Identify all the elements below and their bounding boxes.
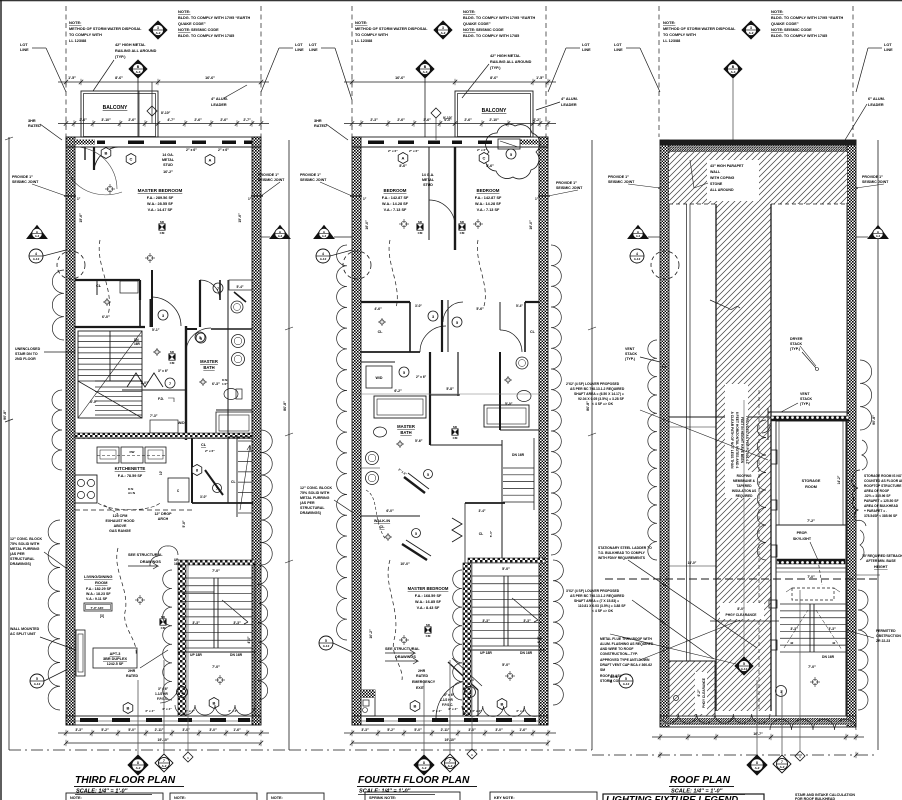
plan B landing wall: [468, 649, 545, 651]
plan A hex B: [101, 148, 111, 159]
svg-text:LINE: LINE: [614, 48, 623, 52]
plan B cloud around stair: [453, 570, 462, 700]
svg-text:AREA OF ROOF: AREA OF ROOF: [864, 489, 889, 493]
plan B emergency door arc: [436, 680, 474, 718]
svg-text:10′-0″: 10′-0″: [400, 562, 410, 566]
svg-text:2′X2′ (4 SF) LOUVER PROPOSED: 2′X2′ (4 SF) LOUVER PROPOSED: [566, 382, 620, 386]
svg-text:KITCHENETTE: KITCHENETTE: [115, 466, 146, 471]
svg-text:RAILING ALL AROUND: RAILING ALL AROUND: [490, 60, 532, 64]
svg-text:2″ x 6″: 2″ x 6″: [388, 149, 398, 153]
plan B shaft bottom left: [361, 690, 375, 716]
plan A bath walls: [185, 326, 187, 440]
bottom note box 5: [490, 792, 597, 800]
plan B dashed curves: [389, 240, 397, 308]
plan C 16ft dim: [669, 565, 716, 567]
overall height dimension line left of third floor plan: [8, 137, 10, 750]
svg-text:7: 7: [216, 487, 218, 491]
svg-text:A-3: A-3: [636, 234, 641, 238]
svg-text:A-2: A-2: [749, 31, 754, 35]
leader from louver note to shaft: [640, 410, 768, 460]
svg-text:3′-0″: 3′-0″: [200, 495, 207, 499]
svg-text:3: 3: [432, 315, 434, 319]
svg-text:1: 1: [181, 691, 183, 695]
svg-text:LINE: LINE: [20, 48, 29, 52]
svg-text:PROVIDE 1″: PROVIDE 1″: [608, 175, 629, 179]
svg-text:5′-8″: 5′-8″: [182, 520, 186, 527]
svg-text:LINE: LINE: [884, 48, 893, 52]
plan C right wall (hatched): [847, 140, 856, 727]
plan A kitchen counters: [97, 447, 119, 463]
svg-text:B: B: [414, 704, 417, 709]
plan A bath sinks: [232, 335, 245, 348]
bottom note box 1: [66, 793, 163, 800]
svg-text:PROVIDE 1″: PROVIDE 1″: [258, 173, 279, 177]
plan A mid partitions: [150, 299, 152, 327]
plan A top dimension line 1: [58, 81, 269, 83]
svg-text:3: 3: [162, 314, 164, 318]
plan C bottom marker diamond 7/A-2: [773, 755, 791, 773]
plan B hex A: [398, 153, 408, 164]
svg-text:3′-3″: 3′-3″: [361, 728, 369, 732]
svg-text:RATED: RATED: [314, 124, 327, 128]
svg-text:W/D: W/D: [376, 376, 383, 380]
svg-text:SEISMIC JOINT: SEISMIC JOINT: [608, 180, 635, 184]
svg-text:3′-3″: 3′-3″: [482, 619, 490, 623]
sheet border top edge: [0, 0, 902, 2]
svg-text:6′-3″: 6′-3″: [212, 382, 220, 386]
svg-text:2′-2″: 2′-2″: [533, 118, 541, 122]
plan A bottom small diamond: [183, 752, 193, 762]
svg-text:NOTE:: NOTE:: [463, 27, 475, 32]
plan B fixtures bedroom1: [401, 221, 407, 227]
svg-text:4″ x 4″: 4″ x 4″: [448, 707, 458, 711]
svg-text:QUAKE CODE”: QUAKE CODE”: [178, 22, 206, 26]
svg-text:DRAWINGS): DRAWINGS): [300, 511, 322, 515]
svg-text:BEDROOM: BEDROOM: [384, 188, 407, 193]
svg-text:PROVIDED AS PER FC 504.4.1: PROVIDED AS PER FC 504.4.1: [745, 416, 749, 464]
svg-text:F.A.: 182.29 SF: F.A.: 182.29 SF: [86, 587, 112, 591]
svg-text:3: 3: [750, 26, 752, 30]
svg-text:PROP.: PROP.: [797, 531, 808, 535]
svg-text:3′-0″: 3′-0″: [415, 304, 422, 308]
svg-text:WALL: WALL: [710, 170, 721, 174]
svg-text:[3]: [3]: [100, 614, 104, 618]
svg-text:42″ HIGH METAL: 42″ HIGH METAL: [115, 43, 146, 47]
plan C skylight dashed rect: [792, 588, 834, 600]
svg-text:2′-11″: 2′-11″: [155, 728, 164, 732]
plan A circle marker 7: [213, 283, 223, 293]
plan C parapet note box: [707, 160, 759, 201]
plan B sd lower: [425, 627, 431, 633]
dimension line right of roof plan: [877, 140, 879, 750]
lot line (dashed): [852, 6, 854, 137]
svg-text:+ PARAPET = .: + PARAPET = .: [864, 509, 887, 513]
svg-text:PROVIDE 1″: PROVIDE 1″: [862, 175, 883, 179]
svg-text:4″ ALUM.: 4″ ALUM.: [561, 97, 578, 101]
svg-text:5: 5: [510, 153, 512, 157]
plan C storage lower dotted band: [777, 559, 845, 564]
plan A cloud right stair: [258, 565, 268, 700]
svg-text:A-12: A-12: [320, 257, 327, 261]
triangle marker left of plan C: [628, 226, 648, 239]
svg-text:METHOD OF STORM WATER DISPOSAL: METHOD OF STORM WATER DISPOSAL: [69, 27, 142, 31]
plan B angled exit walls: [448, 662, 478, 690]
plan A kitchen right closet: [191, 438, 193, 503]
plan B stair shaft walls: [463, 563, 471, 716]
plan C top parapet wall: [660, 140, 856, 145]
svg-text:(AS PER: (AS PER: [300, 501, 315, 505]
svg-text:METAL FURRING: METAL FURRING: [300, 496, 330, 500]
svg-text:BATH: BATH: [400, 430, 411, 435]
dimension line between third and fourth floor plans: [288, 140, 290, 750]
svg-text:4′-7″: 4′-7″: [167, 118, 175, 122]
plan A hex B bottom: [123, 703, 133, 714]
bottom note box 4: [365, 792, 460, 800]
svg-text:4′-6″: 4′-6″: [374, 307, 382, 311]
svg-text:METAL FURRING: METAL FURRING: [10, 547, 40, 551]
svg-text:43″ HIGH PARAPET: 43″ HIGH PARAPET: [710, 164, 744, 168]
svg-text:LL 123/88: LL 123/88: [663, 39, 680, 43]
svg-text:4″ x 4″: 4″ x 4″: [145, 709, 155, 713]
svg-text:2′-3″: 2′-3″: [370, 118, 378, 122]
plan A small diamond 1 marker: [147, 106, 157, 116]
svg-text:2HR: 2HR: [128, 669, 136, 673]
svg-text:6′-2″: 6′-2″: [697, 689, 701, 696]
plan B hex B bottom2: [497, 699, 507, 710]
svg-text:LL 123/88: LL 123/88: [69, 39, 86, 43]
svg-text:PROVIDE 1″: PROVIDE 1″: [12, 175, 33, 179]
svg-text:SM: SM: [600, 668, 605, 672]
svg-text:SEISMIC JOINT: SEISMIC JOINT: [300, 178, 327, 182]
svg-text:7′-2″: 7′-2″: [807, 519, 815, 523]
plan C bottom dimension row: [652, 736, 864, 738]
svg-text:C: C: [483, 156, 486, 161]
svg-text:LOT: LOT: [614, 43, 622, 47]
svg-text:THIRD FLOOR PLAN: THIRD FLOOR PLAN: [75, 775, 176, 786]
plan C left strip lines: [686, 204, 688, 661]
plan A right-side stair flight: [236, 437, 238, 517]
lot line (dashed): [65, 6, 67, 137]
svg-text:5: 5: [36, 677, 38, 681]
plan B closet walls row: [361, 301, 410, 303]
svg-text:DN 16R: DN 16R: [512, 453, 525, 457]
svg-text:3′-3″: 3′-3″: [75, 728, 83, 732]
svg-text:4″ x 4″: 4″ x 4″: [432, 709, 442, 713]
svg-text:16′-6″: 16′-6″: [205, 76, 215, 80]
svg-text:7′-0″ AFF: 7′-0″ AFF: [90, 606, 103, 610]
plan B top dimension line 1: [344, 81, 556, 83]
plan B left wall (hatched): [352, 137, 361, 725]
plan B hall wall mid: [361, 361, 395, 363]
svg-text:CM: CM: [418, 231, 423, 235]
plan A ceiling fixture: [107, 186, 113, 192]
plan A circle marker 5: [195, 332, 205, 342]
svg-text:NC &: NC &: [610, 675, 618, 679]
svg-text:CM: CM: [426, 634, 431, 638]
svg-text:3′-6″: 3′-6″: [423, 118, 431, 122]
svg-text:DRYER: DRYER: [790, 337, 803, 341]
plan A circle 1: [177, 687, 188, 698]
plan B master sinks: [366, 452, 379, 465]
svg-text:5′-1″: 5′-1″: [152, 328, 160, 332]
plan C bottom marker diamond 8/A-2: [747, 755, 767, 775]
svg-text:APPROVED TYPE ANTI-DOWN: APPROVED TYPE ANTI-DOWN: [600, 658, 650, 662]
svg-text:5: 5: [427, 473, 429, 477]
svg-text:8: 8: [756, 761, 758, 765]
svg-text:5′-6″: 5′-6″: [476, 307, 484, 311]
triangle marker A/A-3 left of plan A: [27, 226, 47, 239]
svg-text:1-1/2 HR: 1-1/2 HR: [440, 698, 453, 702]
svg-text:SPRINK NOTE:: SPRINK NOTE:: [369, 796, 396, 800]
svg-text:8′-6″: 8′-6″: [490, 76, 498, 80]
svg-text:CM: CM: [460, 231, 465, 235]
svg-text:< 4 SF => OK: < 4 SF => OK: [592, 402, 614, 406]
svg-text:SEISMIC JOINT: SEISMIC JOINT: [862, 180, 889, 184]
plan A revision cloud left: [52, 270, 64, 340]
plan A hex C: [126, 154, 136, 165]
svg-text:2′-6″: 2′-6″: [397, 118, 405, 122]
plan B bottom dimension row 1: [344, 732, 556, 734]
svg-text:MASTER BEDROOM: MASTER BEDROOM: [408, 586, 449, 591]
svg-text:SKYLIGHT: SKYLIGHT: [793, 537, 812, 541]
plan C squiggle leader: [710, 300, 740, 309]
svg-text:2′-10″: 2′-10″: [489, 118, 499, 122]
plan B bottom marker diamond 7/A-2: [441, 754, 459, 772]
svg-text:NOTE:: NOTE:: [271, 796, 283, 800]
svg-text:B: B: [105, 151, 108, 156]
plan A smoke detector: [159, 224, 165, 230]
svg-text:16′-0″: 16′-0″: [688, 561, 697, 565]
plan A hex B bottom2: [209, 698, 219, 709]
svg-text:3BR DUPLEX: 3BR DUPLEX: [103, 657, 128, 661]
svg-text:7: 7: [217, 287, 219, 291]
svg-text:A-2: A-2: [162, 764, 167, 768]
plan A left wall (12in conc block, hatched): [66, 137, 75, 725]
svg-text:QUAKE CODE”: QUAKE CODE”: [463, 22, 491, 26]
svg-text:5: 5: [743, 662, 745, 666]
svg-text:1″: 1″: [535, 197, 539, 201]
svg-text:W.A.: 14.28 SF: W.A.: 14.28 SF: [382, 202, 409, 206]
plan A stove: [75, 475, 97, 503]
svg-text:90′-8″: 90′-8″: [872, 415, 876, 425]
svg-text:1′-6″: 1′-6″: [233, 728, 241, 732]
svg-text:.32% = 385.96 SF: .32% = 385.96 SF: [864, 494, 891, 498]
plan A target sym 2: [147, 255, 153, 261]
svg-text:AND WIRE TO ROOF: AND WIRE TO ROOF: [600, 647, 633, 651]
plan B right wall (hatched): [539, 137, 548, 725]
svg-text:W.A.: 16.85 SF: W.A.: 16.85 SF: [415, 600, 442, 604]
svg-text:2″ x 6″: 2″ x 6″: [205, 449, 215, 453]
svg-text:A-3: A-3: [322, 234, 327, 238]
plan C phgy clearance label (rotated): [695, 672, 707, 714]
plan A stair shaft checker top: [178, 560, 255, 565]
svg-text:CM: CM: [170, 361, 175, 365]
svg-text:5: 5: [456, 321, 458, 325]
plan C dashed ladder line: [758, 390, 760, 710]
svg-text:A-2: A-2: [156, 31, 161, 35]
svg-text:AC SPLIT UNIT: AC SPLIT UNIT: [10, 632, 37, 636]
svg-text:NOTE:: NOTE:: [178, 9, 190, 14]
svg-text:75% SOLID WITH: 75% SOLID WITH: [300, 491, 330, 495]
svg-text:SEISMIC JOINT: SEISMIC JOINT: [556, 186, 583, 190]
plan A closet walls: [75, 279, 140, 281]
svg-text:KEY NOTE:: KEY NOTE:: [494, 796, 515, 800]
plan B hex B bottom: [410, 701, 420, 712]
svg-text:(AS PER: (AS PER: [10, 552, 25, 556]
plan B master tub: [374, 396, 426, 418]
svg-text:378.54SF < 385.96 SF: 378.54SF < 385.96 SF: [864, 514, 897, 518]
svg-text:A CLEAR PATH OF NOT LESS THAN: A CLEAR PATH OF NOT LESS THAN: [730, 412, 734, 470]
svg-text:ROOF PLAN: ROOF PLAN: [670, 775, 731, 786]
svg-text:METAL FLUE THRU ROOF WITH: METAL FLUE THRU ROOF WITH: [600, 637, 652, 641]
svg-text:2HR: 2HR: [418, 669, 426, 673]
svg-text:5′-6″: 5′-6″: [415, 439, 423, 443]
plan C bottom overall dashed: [592, 754, 878, 756]
plan A closet wall stub: [139, 300, 141, 327]
svg-text:16′-6″: 16′-6″: [395, 76, 405, 80]
plan A sd mid: [169, 354, 175, 360]
svg-text:16R: 16R: [134, 342, 141, 346]
plan A tub bottom right: [216, 412, 252, 434]
plan A dashed curve lower: [117, 548, 136, 655]
svg-text:(TYP.): (TYP.): [490, 66, 501, 70]
svg-text:A-3: A-3: [731, 70, 736, 74]
svg-text:DN 16R: DN 16R: [520, 651, 533, 655]
svg-text:7: 7: [163, 759, 165, 763]
svg-text:ROOFTOP STRUCTURE: ROOFTOP STRUCTURE: [864, 484, 902, 488]
svg-text:7′-0″: 7′-0″: [807, 575, 815, 579]
svg-text:FOURTH FLOOR PLAN: FOURTH FLOOR PLAN: [358, 775, 470, 786]
svg-text:ROOM: ROOM: [95, 580, 108, 585]
svg-text:WITH FDNY REQUIREMENTS: WITH FDNY REQUIREMENTS: [598, 556, 646, 560]
svg-text:A-3: A-3: [35, 234, 40, 238]
svg-text:3′-3″: 3′-3″: [192, 621, 200, 625]
svg-text:A-12: A-12: [741, 667, 748, 671]
svg-text:5′-4″: 5′-4″: [516, 304, 523, 308]
plan C setback dashed line: [605, 578, 880, 580]
svg-text:90′-8″: 90′-8″: [3, 410, 7, 420]
svg-text:VENT: VENT: [800, 392, 810, 396]
svg-text:6′-0″: 6′-0″: [444, 118, 452, 122]
svg-text:VENT: VENT: [625, 347, 635, 351]
plan C cloud right outside: [860, 360, 872, 430]
lot line (dashed): [351, 6, 353, 137]
svg-text:ROOM: ROOM: [805, 485, 817, 489]
bottom lighting legend box: [603, 794, 764, 800]
svg-text:V.A.: 7.13 SF: V.A.: 7.13 SF: [477, 208, 500, 212]
plan C bottom small diamond: [795, 751, 805, 761]
plan C 8ft phgy label: [720, 603, 764, 619]
plan C roofing membrane note: [729, 472, 759, 498]
svg-text:B: B: [501, 702, 504, 707]
svg-text:DN 16R: DN 16R: [822, 655, 835, 659]
svg-text:1-1/2 HR: 1-1/2 HR: [155, 692, 168, 696]
plan B balcony: [455, 91, 533, 137]
svg-text:7: 7: [449, 759, 451, 763]
svg-text:125 CFM: 125 CFM: [113, 514, 128, 518]
svg-text:GAS RANGE: GAS RANGE: [109, 529, 131, 533]
plan A bottom dimension row 2: [66, 742, 261, 744]
plan A bottom wall with windows: [66, 716, 261, 725]
svg-text:2′-6″: 2′-6″: [79, 118, 87, 122]
leader permitted obstruction: [846, 630, 874, 638]
svg-text:2′-7″: 2′-7″: [243, 118, 251, 122]
svg-text:LEADER: LEADER: [561, 103, 577, 107]
svg-text:4: 4: [322, 252, 324, 256]
lot line (dashed): [545, 6, 547, 137]
circle marker 5/A-12 left of plan B lower: [319, 636, 333, 650]
svg-text:(TYP.): (TYP.): [800, 402, 811, 406]
plan B top wall with windows: [352, 137, 548, 147]
plan B lower closet: [465, 502, 505, 504]
svg-text:BLDG. TO COMPLY WITH 17/95 “EA: BLDG. TO COMPLY WITH 17/95 “EARTH: [463, 16, 536, 20]
svg-text:PROVIDE 1″: PROVIDE 1″: [300, 173, 321, 177]
svg-text:LINE: LINE: [295, 48, 304, 52]
svg-text:TO COMPLY WITH: TO COMPLY WITH: [69, 33, 102, 37]
svg-text:92.04 X 0.05 (3.5%) = 3.28 SF: 92.04 X 0.05 (3.5%) = 3.28 SF: [578, 397, 624, 401]
svg-text:7′-0″: 7′-0″: [212, 569, 220, 573]
svg-text:STORAGE: STORAGE: [802, 479, 821, 483]
circle marker 5/A-12 left of plan C: [619, 674, 633, 688]
svg-text:BLDG. TO COMPLY WITH 17/85: BLDG. TO COMPLY WITH 17/85: [771, 34, 827, 38]
svg-text:C: C: [130, 157, 133, 162]
plan B dashed curve lower: [388, 560, 402, 680]
svg-text:STUD: STUD: [423, 183, 433, 187]
svg-text:NOTE:: NOTE:: [771, 27, 783, 32]
plan C circle 1: [776, 686, 787, 697]
circle marker 4/A-12 left of plan C: [630, 249, 644, 263]
plan A toilet: [224, 389, 238, 400]
svg-text:16′-0″: 16′-0″: [529, 220, 533, 230]
svg-text:6′-2″: 6′-2″: [394, 389, 402, 393]
svg-text:(TYP.): (TYP.): [790, 347, 801, 351]
svg-text:3′-3″: 3′-3″: [233, 621, 241, 625]
svg-text:SCALE: 1/4″ = 1′-0″: SCALE: 1/4″ = 1′-0″: [359, 789, 411, 795]
svg-text:PARAPET = 125.50 SF: PARAPET = 125.50 SF: [864, 499, 898, 503]
svg-text:HEIGHT: HEIGHT: [874, 565, 888, 569]
svg-text:LIVING/DINING: LIVING/DINING: [84, 574, 112, 579]
svg-text:STONE: STONE: [710, 182, 723, 186]
plan B right stair flight: [501, 440, 503, 560]
svg-text:A: A: [209, 158, 212, 163]
svg-text:CL: CL: [96, 284, 102, 288]
lot line (dashed): [260, 6, 262, 137]
triangle marker right of plan C: [868, 226, 888, 239]
svg-text:BALCONY: BALCONY: [482, 108, 507, 114]
plan B bottom small diamond: [467, 749, 477, 759]
plan B top dimension line 2: [344, 123, 556, 125]
svg-text:F.A.: 168.59 SF: F.A.: 168.59 SF: [415, 594, 442, 598]
plan B fixtures bedroom2: [475, 221, 481, 227]
svg-text:A-12: A-12: [323, 644, 330, 648]
svg-text:DRAFT VENT CAP BCA # 360-62: DRAFT VENT CAP BCA # 360-62: [600, 663, 652, 667]
svg-text:ARCH: ARCH: [158, 517, 169, 521]
svg-text:V.A.: 8.43 SF: V.A.: 8.43 SF: [417, 606, 440, 610]
svg-text:7′-3″: 7′-3″: [150, 414, 158, 418]
svg-text:LOT: LOT: [884, 43, 892, 47]
svg-text:LIGHTING FIXTURE LEGEND: LIGHTING FIXTURE LEGEND: [606, 795, 738, 800]
svg-text:B: B: [127, 706, 130, 711]
svg-text:TO COMPLY WITH: TO COMPLY WITH: [355, 33, 388, 37]
svg-text:NOTE:: NOTE:: [69, 20, 81, 25]
marker diamond B/A-3 above plan C: [724, 60, 742, 78]
plan B stair shaft checker top: [468, 558, 545, 563]
plan A top wall with window openings: [66, 137, 261, 147]
svg-text:A-3: A-3: [423, 70, 428, 74]
svg-text:STACK: STACK: [790, 342, 803, 346]
svg-text:4: 4: [35, 252, 37, 256]
svg-text:4′-0″: 4′-0″: [247, 636, 251, 643]
